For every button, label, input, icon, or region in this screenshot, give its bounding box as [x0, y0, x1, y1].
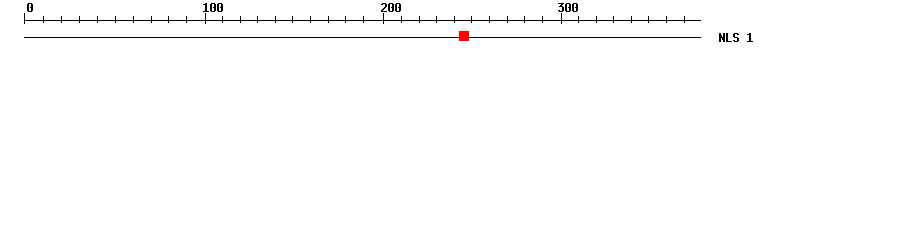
feature sequence line: [24, 37, 701, 38]
minor ticks 110-190: [222, 16, 364, 23]
ruler axis line: [24, 20, 701, 21]
major tick 0: [24, 13, 25, 24]
ruler label 200: [381, 3, 401, 12]
ruler label 0: [27, 3, 33, 12]
minor ticks 10-90: [43, 16, 187, 23]
ruler label 300: [558, 3, 578, 12]
major tick 200: [383, 13, 384, 24]
ruler label 100: [203, 3, 223, 12]
minor ticks 210-290: [401, 16, 543, 23]
minor ticks 310-370: [578, 16, 685, 23]
red motif marker NLS 1: [459, 31, 469, 41]
feature label NLS 1: [719, 33, 753, 42]
major tick 300: [561, 13, 562, 24]
major tick 100: [205, 13, 206, 24]
